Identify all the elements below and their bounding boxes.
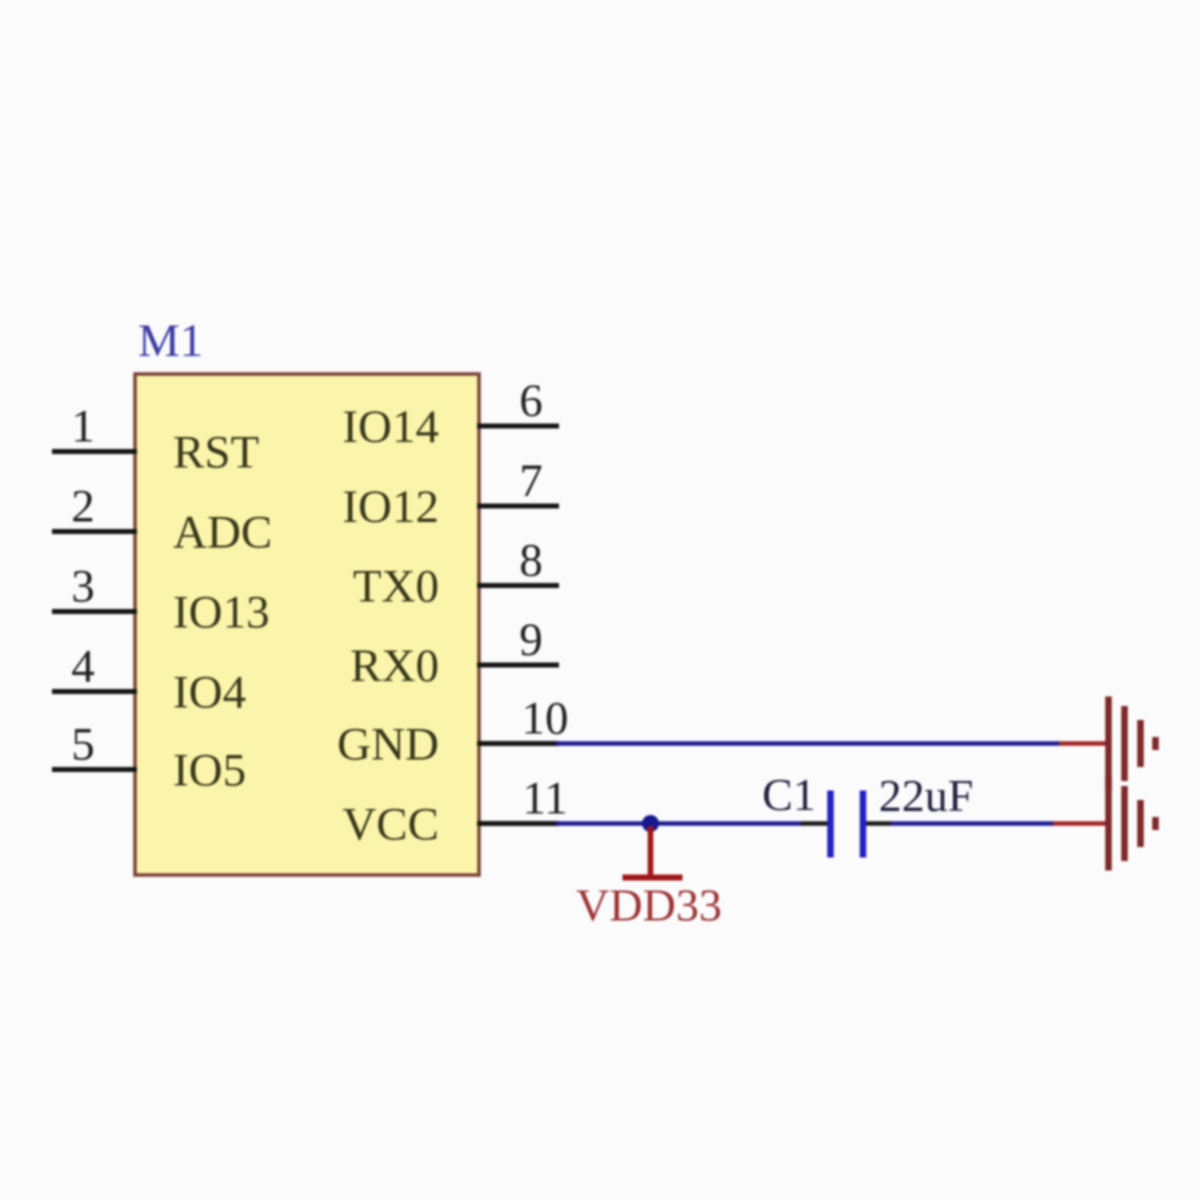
wire VCC net red segment at ground: [1053, 821, 1109, 826]
svg-text:VCC: VCC: [342, 799, 439, 851]
wire GND net red segment at ground: [1059, 741, 1109, 746]
svg-text:IO12: IO12: [342, 481, 439, 533]
svg-text:M1: M1: [138, 315, 203, 367]
svg-text:5: 5: [71, 719, 95, 771]
wire capacitor right lead: [864, 821, 891, 826]
ground symbol bottom (VCC net return): [1109, 777, 1156, 871]
svg-text:GND: GND: [337, 719, 439, 771]
svg-text:RX0: RX0: [350, 640, 439, 692]
ground symbol top (GND net): [1109, 697, 1156, 791]
pin 10 GND: [337, 693, 568, 771]
pin 7 IO12: [342, 455, 559, 533]
svg-text:10: 10: [522, 693, 569, 745]
module M1 body: [135, 374, 479, 875]
capacitor C1: [831, 791, 864, 858]
svg-text:22uF: 22uF: [879, 770, 974, 821]
wire VCC net: pin 11 to capacitor: [556, 821, 801, 826]
svg-text:RST: RST: [173, 427, 259, 479]
pin 5 IO5: [52, 719, 246, 797]
svg-text:VDD33: VDD33: [576, 880, 722, 931]
svg-text:9: 9: [519, 614, 543, 666]
svg-text:3: 3: [71, 561, 95, 613]
svg-text:IO5: IO5: [173, 745, 246, 797]
svg-text:11: 11: [522, 773, 567, 825]
pin 1 RST: [52, 401, 259, 479]
wire GND net: pin 10 to ground: [556, 741, 1059, 746]
svg-text:C1: C1: [762, 769, 816, 820]
svg-text:1: 1: [71, 401, 95, 453]
pin 2 ADC: [52, 481, 272, 559]
pin 4 IO4: [52, 641, 246, 719]
pin 11 VCC: [342, 773, 567, 851]
svg-text:TX0: TX0: [353, 561, 439, 613]
wire capacitor left lead: [801, 821, 829, 826]
svg-text:IO14: IO14: [342, 401, 439, 453]
junction dot on VCC net: [642, 815, 659, 832]
pin 6 IO14: [342, 375, 559, 453]
svg-text:IO13: IO13: [173, 587, 270, 639]
wire VCC net: capacitor to ground: [891, 821, 1053, 826]
svg-text:6: 6: [519, 375, 543, 427]
svg-text:2: 2: [71, 481, 95, 533]
svg-text:4: 4: [71, 641, 95, 693]
pin 9 RX0: [350, 614, 559, 692]
svg-text:IO4: IO4: [173, 667, 246, 719]
svg-text:8: 8: [519, 535, 543, 587]
pin 3 IO13: [52, 561, 270, 639]
svg-text:7: 7: [519, 455, 543, 507]
power symbol VDD33: [623, 826, 683, 878]
pin 8 TX0: [353, 535, 559, 613]
svg-text:ADC: ADC: [173, 507, 272, 559]
